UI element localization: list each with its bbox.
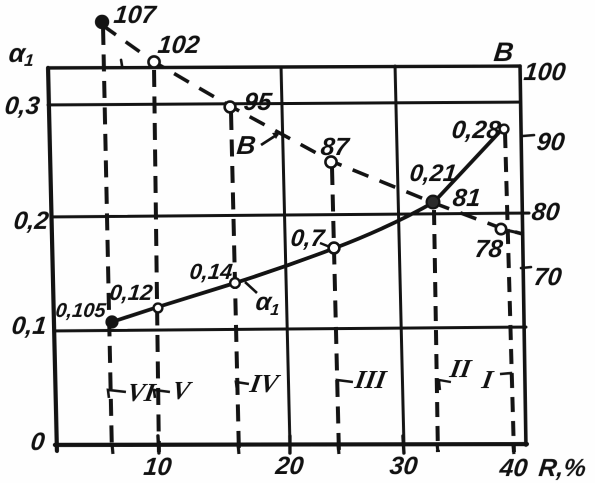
dashed zone line IV	[231, 113, 239, 452]
point B=87	[325, 156, 336, 167]
zone tick I	[500, 373, 512, 380]
svg-text:20: 20	[273, 452, 305, 480]
axis stub III	[338, 443, 339, 454]
svg-text:90: 90	[535, 128, 566, 156]
svg-text:0,2: 0,2	[12, 207, 50, 235]
svg-text:VI: VI	[125, 378, 158, 407]
svg-text:80: 80	[530, 198, 561, 226]
svg-text:0,21: 0,21	[408, 160, 458, 187]
svg-text:0,7: 0,7	[289, 225, 327, 252]
svg-text:30: 30	[388, 452, 419, 480]
leader of 0,7 label	[320, 243, 330, 247]
tick small top frame	[121, 60, 122, 66]
curve B (dashed)	[102, 25, 523, 234]
point B=107 (filled blob)	[95, 15, 109, 29]
svg-text:0,28: 0,28	[450, 116, 502, 144]
tick B=90	[522, 135, 534, 136]
zone tick IV	[236, 382, 249, 390]
point a=0.28 (end hook)	[500, 125, 509, 134]
gridline y=0.1	[54, 327, 526, 331]
svg-text:0,105: 0,105	[54, 300, 107, 322]
svg-text:α1: α1	[254, 288, 282, 319]
tick B=70	[521, 267, 531, 268]
svg-text:IV: IV	[247, 369, 283, 398]
frame bottom (x axis)	[55, 444, 527, 445]
gridline y=0.2 (extends as tick 80)	[51, 213, 529, 217]
curve alpha1 (solid)	[112, 125, 506, 322]
svg-text:II: II	[447, 354, 474, 383]
svg-text:87: 87	[319, 133, 351, 161]
svg-text:V: V	[170, 376, 195, 405]
point a=0.12	[154, 304, 163, 313]
svg-text:B: B	[492, 36, 515, 67]
frame left (y axis)	[48, 68, 57, 451]
gridline y=0.3	[48, 102, 520, 105]
axis stub IV	[238, 443, 239, 454]
svg-text:95: 95	[242, 88, 274, 116]
svg-text:0,1: 0,1	[10, 312, 48, 340]
zone tick III	[337, 380, 353, 390]
point B=102	[148, 56, 159, 67]
tick x=20	[288, 436, 291, 453]
dashed zone line I	[505, 133, 514, 452]
svg-text:0,12: 0,12	[108, 280, 154, 305]
zone tick II	[439, 380, 451, 390]
zone tick V	[154, 390, 170, 398]
dashed zone line VI	[103, 28, 112, 452]
point a=0.17	[329, 243, 340, 254]
zone tick VI	[108, 390, 126, 398]
axis stub II	[437, 443, 438, 452]
svg-text:100: 100	[522, 58, 567, 86]
svg-text:0,3: 0,3	[3, 92, 41, 120]
axis stub VI	[112, 443, 113, 454]
svg-text:78: 78	[473, 235, 504, 263]
svg-text:0: 0	[29, 428, 46, 456]
dashed zone line III	[332, 168, 339, 452]
svg-text:107: 107	[112, 1, 158, 29]
B curve end segment crossing right frame	[506, 230, 524, 234]
svg-text:I: I	[479, 365, 496, 394]
leader arrow of B label	[261, 134, 278, 145]
tick x=30	[403, 436, 404, 453]
gridline x=30	[395, 66, 404, 445]
frame top	[48, 66, 520, 68]
svg-text:III: III	[352, 365, 389, 394]
gridline x=20	[281, 67, 290, 445]
svg-text:70: 70	[532, 263, 563, 291]
point B=78	[496, 224, 506, 234]
svg-text:102: 102	[156, 31, 201, 59]
point a=0.105 (filled)	[105, 315, 118, 328]
axis stub I	[513, 443, 514, 454]
dashed zone line II	[434, 210, 438, 452]
svg-text:40: 40	[497, 454, 529, 482]
svg-text:10: 10	[142, 453, 173, 481]
point B=95	[225, 102, 236, 113]
point a=0.14	[230, 278, 240, 288]
svg-text:0,14: 0,14	[188, 259, 233, 284]
leader of alpha1 label	[245, 282, 257, 293]
svg-text:R,%: R,%	[537, 454, 587, 482]
point B=81 / a=0.21 (crossing, hatched)	[427, 196, 440, 209]
dashed zone line V	[154, 70, 159, 452]
tick x=10	[158, 436, 159, 453]
svg-text:B: B	[235, 130, 257, 160]
frame right	[520, 66, 526, 445]
svg-text:81: 81	[451, 184, 482, 212]
svg-text:α1: α1	[7, 38, 36, 70]
